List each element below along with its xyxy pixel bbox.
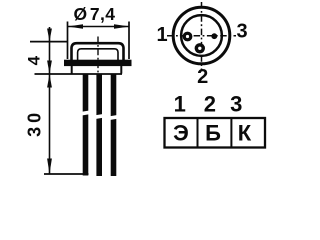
arrow down at cap top tick <box>47 29 52 42</box>
svg-text:3: 3 <box>236 21 247 43</box>
can centerline <box>97 37 99 77</box>
rim right side <box>120 66 122 74</box>
svg-text:2: 2 <box>204 92 216 117</box>
svg-text:К: К <box>238 121 252 146</box>
dimension arrow right <box>114 24 129 29</box>
pin view horizontal centerline <box>167 35 236 37</box>
pin 1 (emitter) <box>183 32 193 42</box>
diameter dimension line <box>68 26 129 28</box>
can cap outline <box>72 43 124 60</box>
rim left side <box>71 66 73 74</box>
cap-top dimension tick <box>30 41 68 43</box>
lead 2 break <box>95 114 103 119</box>
arrow up at rim bottom tick <box>47 74 52 87</box>
lead 1 break <box>82 111 90 116</box>
arrow down at rim bottom tick <box>47 61 52 74</box>
vertical dimension line <box>49 27 51 174</box>
lead 3 <box>111 75 117 177</box>
rim bottom and lower dimension tick <box>35 73 123 75</box>
svg-text:2: 2 <box>197 66 208 88</box>
arrow down at lead end tick <box>47 159 52 174</box>
lead 2 <box>96 75 102 177</box>
lead 3 break <box>110 115 118 120</box>
dimension arrow left <box>68 24 83 29</box>
can flange <box>64 60 132 66</box>
pin 2 (base) <box>195 43 205 53</box>
extension line right <box>128 22 130 60</box>
table divider 2 <box>230 118 232 148</box>
svg-text:1: 1 <box>156 24 167 46</box>
lead end tick <box>44 173 89 175</box>
lead 1 <box>83 75 89 176</box>
svg-text:Ø7,4: Ø7,4 <box>74 4 116 24</box>
can cap inner crimp line <box>78 49 118 61</box>
svg-text:Б: Б <box>205 121 221 146</box>
extension line left <box>67 22 69 60</box>
pinout table frame <box>165 118 266 148</box>
svg-text:Э: Э <box>173 121 189 146</box>
svg-text:4: 4 <box>25 55 44 65</box>
pin view outer circle <box>173 7 230 64</box>
table divider 1 <box>197 118 199 148</box>
pin view inner circle <box>181 15 222 56</box>
svg-text:30: 30 <box>25 109 45 137</box>
pin 3 (collector) <box>211 33 217 39</box>
svg-text:3: 3 <box>230 92 242 117</box>
svg-text:1: 1 <box>174 92 186 117</box>
pin view vertical centerline <box>201 2 203 70</box>
